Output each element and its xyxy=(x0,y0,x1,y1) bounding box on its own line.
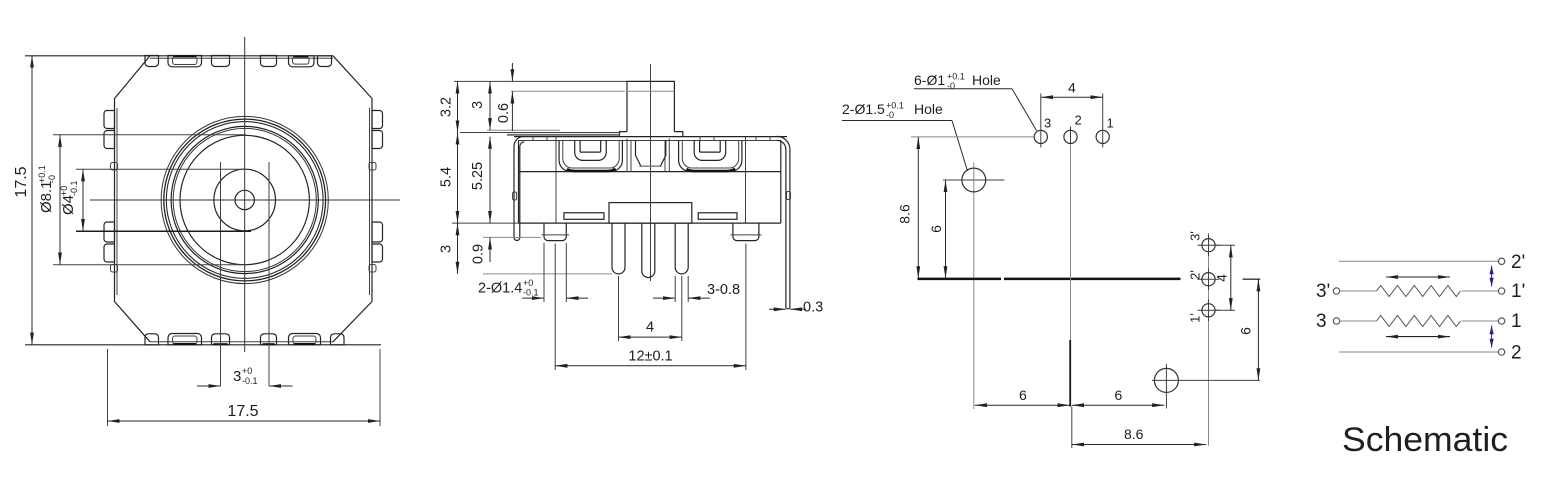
dia 8.1 label xyxy=(37,165,57,213)
center hole circle xyxy=(235,190,254,209)
bottom edge tab 4 dark seam xyxy=(263,343,275,345)
top edge tab 5 inner xyxy=(293,57,310,65)
top edge tab 3 xyxy=(212,56,230,67)
big hole top-left xyxy=(962,168,986,192)
dim 3-0.8 arrow right xyxy=(688,297,710,299)
bottom edge tab 4 xyxy=(261,334,277,345)
dim 2-dia1.4 extensions xyxy=(544,243,566,302)
wire 1 lead xyxy=(1462,320,1499,322)
dim 2-dia1.4 label xyxy=(478,278,539,298)
svg-text:+0: +0 xyxy=(59,186,69,196)
peg left shelf xyxy=(542,234,570,236)
right edge notch 2 xyxy=(369,265,376,273)
svg-text:+0.1: +0.1 xyxy=(886,101,904,111)
dim 3 line xyxy=(489,81,491,130)
body right wall xyxy=(780,141,782,224)
dia 4 dimension line xyxy=(82,169,84,231)
dim 3-0.8 extensions xyxy=(675,276,688,302)
svg-text:0.9: 0.9 xyxy=(470,244,486,264)
svg-text:1': 1' xyxy=(1187,313,1202,323)
top edge tab 6 xyxy=(318,56,332,67)
socket bottom gray xyxy=(639,165,662,167)
dim 0.3 arrow left xyxy=(769,308,786,310)
peg left xyxy=(544,223,566,241)
right edge notch xyxy=(369,163,376,171)
window right outer2 xyxy=(682,141,738,169)
left edge tab 3 xyxy=(104,222,115,242)
dim 3 lower line xyxy=(457,223,459,274)
dia 8.1 extension top xyxy=(53,134,246,136)
right edge tab 1 xyxy=(372,111,383,129)
peg right shelf xyxy=(731,234,762,236)
hole 2' vertical tick xyxy=(1208,269,1210,291)
dim 8.6 left line xyxy=(917,137,919,279)
right edge tab 3 xyxy=(372,222,383,242)
svg-text:6: 6 xyxy=(1115,387,1123,403)
dim 3-0.8 arrow left xyxy=(653,297,675,299)
svg-text:-0.1: -0.1 xyxy=(242,376,258,386)
window left mid tray xyxy=(575,141,607,161)
hole 3' xyxy=(1202,239,1215,252)
shaft foot right xyxy=(674,132,682,137)
body right inner line xyxy=(369,108,371,295)
wire terminal 2' xyxy=(1339,260,1498,262)
shaft groove line xyxy=(627,90,674,92)
label 6-dia1 hole xyxy=(914,72,1001,92)
body outline top edge xyxy=(25,55,333,57)
bottom edge tab 5 dark seam xyxy=(294,343,315,345)
window right dark bottom xyxy=(687,169,736,172)
window left dark bottom xyxy=(567,169,616,172)
left edge notch xyxy=(111,163,118,171)
wiper link arrow R2 xyxy=(1491,326,1493,348)
svg-text:-0: -0 xyxy=(47,175,57,183)
svg-text:3: 3 xyxy=(1044,116,1051,131)
big hole bottom vertical tick xyxy=(1165,364,1167,409)
dim 6 left line xyxy=(945,180,947,278)
svg-text:3: 3 xyxy=(233,368,241,385)
dim 17.5 bottom extension left xyxy=(107,349,109,426)
svg-text:3: 3 xyxy=(470,101,486,109)
dim 5.25 line xyxy=(489,137,491,224)
extension top row to 8.6 xyxy=(911,136,1034,138)
label 2-dia1.5 leader xyxy=(952,121,968,172)
body bottom line xyxy=(519,222,781,224)
body right edge xyxy=(371,99,373,302)
corner chamfer bottom-right xyxy=(333,302,372,342)
dim 3 keyway label xyxy=(233,366,258,386)
label 2-dia1.5 underline xyxy=(842,120,952,122)
top edge tab 2 xyxy=(168,56,202,67)
dim 4 top extensions xyxy=(1041,94,1103,128)
right edge tab 2 xyxy=(372,131,383,149)
dim 4 right line xyxy=(1230,245,1232,310)
board edge thick line left xyxy=(918,278,1002,281)
dim 4 extensions xyxy=(619,276,682,341)
peg right xyxy=(733,223,759,241)
top edge tab 5 xyxy=(289,56,315,67)
hole 2 xyxy=(1064,130,1077,143)
pin 2 xyxy=(642,223,655,277)
bottom edge tab 3 dark seam xyxy=(214,343,228,345)
dim 0.6 arrow top xyxy=(511,63,513,81)
svg-text:-0.1: -0.1 xyxy=(69,180,79,196)
right edge tab 4 xyxy=(372,244,383,262)
svg-text:Schematic: Schematic xyxy=(1342,421,1508,459)
svg-text:-0: -0 xyxy=(886,110,894,120)
svg-text:Hole: Hole xyxy=(914,101,943,117)
window left outer2 xyxy=(563,141,619,169)
dim 0.3 arrow right xyxy=(790,308,806,310)
ring circle r73.6 xyxy=(171,126,318,273)
socket inner trapezoid xyxy=(636,141,666,167)
bottom edge tab 6 xyxy=(331,334,345,345)
dia 4 extension bottom xyxy=(76,230,251,232)
svg-text:8.6: 8.6 xyxy=(897,204,913,224)
extension hole2 vertical to 8.6 xyxy=(1071,407,1073,448)
terminal 2' circle xyxy=(1498,258,1504,264)
svg-text:1: 1 xyxy=(1511,311,1522,332)
svg-text:2: 2 xyxy=(1511,343,1522,364)
body top second line xyxy=(519,140,782,142)
bottom edge tab 5 xyxy=(289,334,321,345)
svg-text:0.3: 0.3 xyxy=(803,300,823,316)
svg-text:6: 6 xyxy=(1238,327,1254,335)
extension hole2 vertical lower dark xyxy=(1069,340,1071,407)
body left wall xyxy=(518,141,520,224)
dim 4 line xyxy=(619,336,682,338)
body left inner line xyxy=(116,108,118,295)
socket left walls xyxy=(627,139,631,172)
knob circle dia 8.1 xyxy=(180,135,309,264)
svg-text:2: 2 xyxy=(1075,113,1082,128)
outer ring circle r78.4 xyxy=(166,122,323,279)
hole 3' vertical tick xyxy=(1208,235,1210,257)
dia 8.1 extension bottom xyxy=(53,264,246,266)
body inner wall right xyxy=(745,137,747,224)
outer ring circle r83.6 xyxy=(161,116,328,283)
svg-text:2-Ø1.4: 2-Ø1.4 xyxy=(478,281,522,297)
dim 2-dia1.4 arrow right xyxy=(566,297,588,299)
window left inner rect xyxy=(580,141,601,153)
socket right walls xyxy=(665,139,669,172)
svg-text:1': 1' xyxy=(1511,281,1525,302)
corner chamfer top-left xyxy=(115,56,151,99)
resistor R2 (3-1) xyxy=(1377,316,1461,327)
left edge tab 4 xyxy=(104,244,115,262)
dim 6 bottom right line xyxy=(1072,404,1165,406)
svg-text:8.6: 8.6 xyxy=(1124,426,1144,442)
hole 2 tick xyxy=(1070,127,1072,148)
big hole bottom xyxy=(1154,368,1178,392)
svg-text:12±0.1: 12±0.1 xyxy=(628,349,672,365)
extension peg shelf left xyxy=(483,236,541,238)
washer plate line xyxy=(507,134,620,136)
extension hole2 vertical upper xyxy=(1070,144,1072,340)
top edge tab 5 dark seam xyxy=(294,56,309,58)
dim 2-dia1.4 arrow left xyxy=(522,297,544,299)
svg-text:Ø4: Ø4 xyxy=(60,195,77,215)
svg-text:2': 2' xyxy=(1187,270,1202,280)
corner chamfer top-right xyxy=(333,56,372,99)
big hole top-left crosshair horizontal xyxy=(943,179,1005,181)
dim 5.4 line xyxy=(457,133,459,224)
svg-text:3: 3 xyxy=(1316,311,1327,332)
svg-text:6: 6 xyxy=(1019,387,1027,403)
svg-text:3: 3 xyxy=(438,245,454,253)
shaft foot left xyxy=(620,132,628,137)
svg-text:2': 2' xyxy=(1511,252,1525,273)
hole 3 tick xyxy=(1040,127,1042,148)
svg-text:+0.1: +0.1 xyxy=(947,72,965,82)
dim 6 bottom left line xyxy=(975,404,1070,406)
svg-text:17.5: 17.5 xyxy=(227,403,258,420)
metal clip left xyxy=(514,136,524,240)
bottom edge tab 5 inner xyxy=(293,336,316,344)
dim 3 keyway arrow left xyxy=(197,385,221,387)
bottom edge tab 2 inner xyxy=(173,336,198,344)
dim 4 right extensions xyxy=(1216,245,1235,310)
svg-text:4: 4 xyxy=(1214,274,1230,282)
wiper link arrow R1 xyxy=(1491,266,1493,287)
svg-text:-0: -0 xyxy=(947,81,955,91)
svg-text:1: 1 xyxy=(1107,116,1114,131)
vertical centerline xyxy=(244,37,246,352)
body left edge xyxy=(114,99,116,302)
dim 17.5 bottom extension right xyxy=(379,349,381,426)
wire 3 lead xyxy=(1340,320,1377,322)
lower slot right xyxy=(698,213,737,220)
lower slot left xyxy=(564,213,604,220)
bottom edge tab 2 dark seam xyxy=(174,343,197,345)
pin 3 xyxy=(675,223,688,274)
svg-text:2-Ø1.5: 2-Ø1.5 xyxy=(842,101,885,117)
svg-text:3': 3' xyxy=(1187,231,1202,241)
dim 3.2 line xyxy=(457,81,459,132)
dim 3 keyway arrow right xyxy=(269,385,293,387)
svg-text:4: 4 xyxy=(646,320,654,336)
terminal 1' circle xyxy=(1498,288,1504,294)
extension line shaft top xyxy=(454,80,627,82)
hole 3 xyxy=(1034,130,1047,143)
terminal 2 circle xyxy=(1498,349,1504,355)
dim 8.6 bottom line xyxy=(1072,444,1207,446)
wire 1' lead xyxy=(1462,290,1499,292)
svg-text:+0: +0 xyxy=(523,278,533,288)
top edge tab 4 xyxy=(261,56,277,67)
metal clip right curl xyxy=(777,136,790,308)
body bottom edge xyxy=(25,344,381,346)
dim 0.9 arrow xyxy=(489,237,491,262)
right hole column line xyxy=(1208,233,1210,446)
horizontal centerline xyxy=(90,199,400,201)
top edge tab 1 xyxy=(145,56,159,67)
svg-text:-0.1: -0.1 xyxy=(523,288,539,298)
shaft circle dia 4 xyxy=(214,169,276,231)
big hole top-left vertical extension xyxy=(973,163,975,410)
dim 17.5 left dimension line xyxy=(31,56,33,345)
clip left dimple xyxy=(513,192,517,200)
hole 1' vertical tick xyxy=(1208,300,1210,322)
hole 1 tick xyxy=(1102,127,1104,148)
svg-text:+0.1: +0.1 xyxy=(37,165,47,183)
dim 0.6 arrow bottom xyxy=(511,91,513,131)
extension line washer top xyxy=(460,132,620,134)
board edge thick line right xyxy=(1004,278,1181,281)
window left outer xyxy=(559,141,622,172)
svg-text:6-Ø1: 6-Ø1 xyxy=(914,72,945,88)
left edge tab 2 xyxy=(104,131,115,149)
body inner wall left xyxy=(555,137,557,224)
extension pin bottom gray xyxy=(483,273,612,275)
big hole bottom crosshair horizontal xyxy=(1152,379,1260,381)
hole 3' tick xyxy=(1198,244,1220,246)
label 6-dia1 underline xyxy=(914,88,1012,90)
terminal 3' circle xyxy=(1333,288,1339,294)
window right outer xyxy=(679,141,742,172)
hole 1' xyxy=(1202,304,1215,317)
hole 1 xyxy=(1096,130,1109,143)
hole 2' tick xyxy=(1198,278,1220,280)
dia 8.1 dimension line xyxy=(59,135,61,265)
label 2-dia1.5 hole xyxy=(842,101,943,121)
window right inner rect xyxy=(700,141,721,153)
dim 17.5 bottom dimension line xyxy=(108,420,381,422)
svg-text:5.4: 5.4 xyxy=(438,167,454,187)
svg-text:3-0.8: 3-0.8 xyxy=(707,282,740,298)
svg-text:0.6: 0.6 xyxy=(496,103,512,123)
wire 3' lead xyxy=(1340,290,1377,292)
dim 12 line xyxy=(555,365,746,367)
extension line shaft groove xyxy=(511,90,625,92)
extension body bottom left xyxy=(452,222,519,224)
keyway flat line left xyxy=(220,162,222,386)
dim 4 top line xyxy=(1041,96,1103,98)
keyway flat line right xyxy=(268,162,270,386)
bottom edge tab 1 xyxy=(145,334,159,345)
terminal 1 circle xyxy=(1498,318,1504,324)
terminal 3 circle xyxy=(1333,318,1339,324)
body mid line xyxy=(519,171,781,173)
top edge tick marks xyxy=(533,137,770,141)
bottom edge tab 3 xyxy=(212,334,230,345)
outer ring circle r80.9 xyxy=(164,119,326,281)
svg-text:3.2: 3.2 xyxy=(438,97,454,117)
window right mid tray xyxy=(694,141,726,161)
dim 12 extensions xyxy=(555,244,746,371)
dim 6 right line xyxy=(1257,279,1259,380)
wiper travel arrow R1 xyxy=(1386,276,1450,278)
ring circle r71.6 xyxy=(173,128,316,271)
dia 4 label xyxy=(59,180,79,215)
clip right dimple xyxy=(787,192,791,200)
vertical centerline xyxy=(650,64,652,281)
extension line seating 3 xyxy=(487,129,560,131)
shaft outline xyxy=(627,81,674,131)
left edge tab 1 xyxy=(104,111,115,129)
dia 4 extension top xyxy=(76,168,246,170)
hole 2' xyxy=(1202,273,1215,286)
board edge short segment xyxy=(1243,278,1261,280)
bottom edge tab 2 xyxy=(168,334,202,345)
svg-text:5.25: 5.25 xyxy=(470,162,486,190)
svg-text:4: 4 xyxy=(1068,80,1076,96)
body outline top inner line xyxy=(150,57,333,59)
pin 1 xyxy=(612,223,625,274)
top edge tab 2 dark seam xyxy=(174,55,197,57)
svg-text:17.5: 17.5 xyxy=(13,166,30,197)
left edge notch 2 xyxy=(111,265,118,273)
body bottom inner line xyxy=(150,341,333,343)
label 6-dia1 leader xyxy=(1012,89,1037,131)
svg-text:Hole: Hole xyxy=(972,72,1001,88)
lower center tab xyxy=(609,203,692,224)
body top line xyxy=(514,136,787,138)
top edge tab 2 inner xyxy=(173,57,198,65)
svg-text:+0: +0 xyxy=(242,366,252,376)
wire terminal 2 xyxy=(1339,351,1498,353)
wiper travel arrow R2 xyxy=(1386,336,1450,338)
svg-text:6: 6 xyxy=(928,225,944,233)
corner chamfer bottom-left xyxy=(115,302,151,342)
svg-text:3': 3' xyxy=(1316,281,1330,302)
hole 1' tick xyxy=(1198,309,1220,311)
resistor R1 (3'-1') xyxy=(1377,286,1461,297)
svg-text:Ø8.1: Ø8.1 xyxy=(38,180,55,213)
